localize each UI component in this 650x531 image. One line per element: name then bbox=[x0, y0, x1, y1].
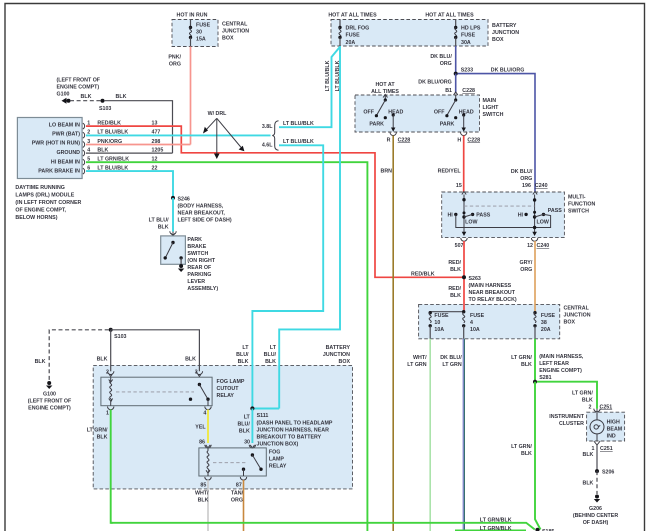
svg-text:LT BLU/BLK: LT BLU/BLK bbox=[325, 60, 331, 91]
svg-text:BLK: BLK bbox=[35, 359, 46, 365]
svg-text:LEFT SIDE OF DASH): LEFT SIDE OF DASH) bbox=[178, 218, 232, 224]
svg-text:DK BLU/: DK BLU/ bbox=[430, 54, 452, 60]
svg-text:10: 10 bbox=[434, 320, 440, 326]
wire WHT/BLK from pin 85 to bottom bbox=[207, 480, 209, 531]
svg-text:PARK BRAKE IN: PARK BRAKE IN bbox=[38, 168, 80, 174]
svg-text:RED/BLK: RED/BLK bbox=[411, 271, 435, 277]
svg-text:LT GRN: LT GRN bbox=[407, 362, 426, 368]
wire BLK dashed S103 to G100 bbox=[49, 330, 108, 381]
svg-text:ORG: ORG bbox=[520, 267, 532, 273]
svg-text:(DASH PANEL TO HEADLAMP: (DASH PANEL TO HEADLAMP bbox=[257, 420, 333, 426]
ground G100 (upper) bbox=[57, 78, 101, 104]
splice S185 bbox=[535, 528, 554, 531]
svg-text:NEAR BREAKOUT: NEAR BREAKOUT bbox=[469, 290, 516, 296]
wire BLK from S103 to DRL ground row bbox=[104, 101, 173, 153]
svg-text:LT BLU/BLK: LT BLU/BLK bbox=[335, 60, 341, 91]
svg-text:BLK: BLK bbox=[583, 452, 594, 458]
wire DK BLU/ORG branch right to multifunction switch bbox=[458, 74, 536, 192]
wire LT GRN/BLK from fuse 38 to S281 bbox=[534, 339, 536, 382]
multi-function switch box outline bbox=[442, 192, 565, 238]
wire WHT/LT GRN from fuse 10 to bottom bbox=[429, 339, 431, 531]
svg-text:BLK: BLK bbox=[185, 357, 196, 363]
pin 2 bbox=[106, 370, 114, 377]
svg-text:BLK: BLK bbox=[81, 94, 92, 100]
svg-text:YEL: YEL bbox=[195, 425, 206, 431]
svg-text:S103: S103 bbox=[114, 334, 126, 340]
central junction box (fuse 30) outline bbox=[172, 20, 218, 47]
svg-text:BLK: BLK bbox=[116, 94, 127, 100]
pin 3 bbox=[83, 139, 91, 148]
svg-text:4.6L: 4.6L bbox=[262, 142, 273, 148]
svg-text:LEVER: LEVER bbox=[187, 279, 205, 285]
svg-text:FUNCTION: FUNCTION bbox=[568, 202, 596, 208]
high beam indicator lamp bbox=[590, 412, 604, 441]
svg-text:4: 4 bbox=[203, 411, 206, 417]
wire LT BLU/BLK from S111 to fog lamp relay pin 30 bbox=[251, 409, 253, 444]
svg-text:DK BLU/: DK BLU/ bbox=[511, 169, 533, 175]
svg-text:BLK: BLK bbox=[521, 362, 532, 368]
svg-text:LT GRN: LT GRN bbox=[442, 362, 461, 368]
svg-text:S233: S233 bbox=[461, 68, 473, 74]
svg-text:S281: S281 bbox=[539, 375, 551, 381]
svg-text:ENGINE COMPT): ENGINE COMPT) bbox=[28, 405, 71, 411]
svg-text:BLK: BLK bbox=[239, 429, 250, 435]
svg-text:30: 30 bbox=[196, 30, 202, 36]
svg-text:20A: 20A bbox=[541, 327, 551, 333]
pin 15 bbox=[456, 183, 466, 195]
svg-text:(MAIN HARNESS: (MAIN HARNESS bbox=[469, 283, 512, 289]
svg-text:2: 2 bbox=[589, 404, 592, 410]
svg-text:BLK: BLK bbox=[582, 397, 593, 403]
svg-text:(LEFT FRONT OF: (LEFT FRONT OF bbox=[28, 398, 72, 404]
label FOG LAMP CUTOUT RELAY bbox=[217, 379, 245, 399]
wire LT BLU/BLK 22 row 6 bbox=[86, 165, 173, 198]
pin R C228 bbox=[387, 132, 411, 143]
label DK BLU/LT GRN bbox=[440, 355, 462, 368]
svg-text:HEAD: HEAD bbox=[388, 110, 403, 116]
wire LT GRN/BLK main down from S281 bbox=[535, 382, 541, 530]
wire BLK 1205 row 4 bbox=[86, 147, 173, 153]
svg-text:85: 85 bbox=[200, 482, 206, 488]
label LT GRN/BLK bbox=[511, 355, 532, 368]
label GRY/ORG bbox=[520, 260, 533, 273]
svg-text:S206: S206 bbox=[602, 470, 614, 476]
svg-text:PARK: PARK bbox=[369, 121, 384, 127]
svg-text:DRL FOG: DRL FOG bbox=[346, 26, 370, 32]
svg-text:JUNCTION: JUNCTION bbox=[564, 313, 591, 319]
svg-text:1: 1 bbox=[106, 411, 109, 417]
svg-text:BELOW HORNS): BELOW HORNS) bbox=[15, 215, 57, 221]
junction on rail bbox=[533, 226, 536, 229]
svg-text:30A: 30A bbox=[461, 40, 471, 46]
ground at park brake switch bbox=[178, 264, 184, 272]
wire low beam rail bbox=[456, 214, 551, 227]
svg-text:38: 38 bbox=[541, 320, 547, 326]
pin 5 bbox=[83, 157, 91, 166]
svg-text:REAR OF: REAR OF bbox=[187, 265, 212, 271]
svg-text:BLK: BLK bbox=[521, 451, 532, 457]
svg-text:SWITCH: SWITCH bbox=[483, 112, 504, 118]
wire BRN from R C228 down to page bottom bbox=[392, 136, 394, 531]
fuse 4 10A bbox=[462, 310, 485, 339]
svg-text:HOT AT ALL TIMES: HOT AT ALL TIMES bbox=[328, 13, 377, 19]
pin 3 bbox=[195, 370, 203, 377]
wire LT GRN/BLK 12 row 5 bbox=[86, 157, 367, 531]
svg-text:GRY/: GRY/ bbox=[520, 260, 533, 266]
svg-text:(BEHIND CENTER: (BEHIND CENTER bbox=[573, 513, 618, 519]
svg-text:DK BLU/ORG: DK BLU/ORG bbox=[491, 68, 525, 74]
svg-text:G100: G100 bbox=[43, 391, 56, 397]
svg-text:G206: G206 bbox=[589, 506, 602, 512]
svg-text:DK BLU/: DK BLU/ bbox=[440, 355, 462, 361]
svg-text:BREAKOUT TO BATTERY: BREAKOUT TO BATTERY bbox=[257, 434, 322, 440]
pin 1 bbox=[83, 120, 91, 129]
svg-text:30: 30 bbox=[244, 439, 250, 445]
wire GRY/ORG from pin 12 to fuse 38 bbox=[534, 241, 536, 313]
svg-text:86: 86 bbox=[199, 439, 205, 445]
svg-text:RELAY: RELAY bbox=[269, 464, 287, 470]
svg-text:BLK: BLK bbox=[583, 481, 594, 487]
svg-text:BOX: BOX bbox=[339, 359, 351, 365]
svg-text:OFF: OFF bbox=[434, 110, 445, 116]
svg-text:LT GRN/: LT GRN/ bbox=[511, 444, 532, 450]
svg-text:C228: C228 bbox=[462, 88, 475, 94]
svg-text:PASS: PASS bbox=[548, 208, 562, 214]
svg-text:DK BLU/ORG: DK BLU/ORG bbox=[418, 80, 452, 86]
pin 30 bbox=[244, 439, 256, 448]
svg-text:BLK: BLK bbox=[238, 359, 249, 365]
svg-text:HI: HI bbox=[447, 213, 453, 219]
svg-text:HD LPS: HD LPS bbox=[461, 26, 481, 32]
wire DK BLU/ORG from HD LPS fuse to S233 bbox=[455, 46, 457, 74]
svg-text:LAMPS (DRL) MODULE: LAMPS (DRL) MODULE bbox=[15, 193, 74, 199]
svg-text:FUSE: FUSE bbox=[434, 313, 449, 319]
wire RED/BLK from pin 507 to S263 bbox=[463, 241, 465, 312]
label TAN/ORG bbox=[231, 491, 244, 504]
splice S263 bbox=[462, 275, 517, 303]
svg-text:BLU/: BLU/ bbox=[236, 352, 249, 358]
svg-text:JUNCTION: JUNCTION bbox=[492, 30, 519, 36]
pin 1 C251 bbox=[592, 441, 613, 452]
svg-text:BLK: BLK bbox=[97, 357, 108, 363]
wire LT BLU/BLK 477 row 2 bbox=[86, 130, 271, 136]
fuse HD LPS 30A bbox=[454, 20, 481, 47]
svg-text:S263: S263 bbox=[469, 276, 481, 282]
wire PNK/ORG 298 row 3 bbox=[86, 139, 191, 145]
svg-text:SWITCH: SWITCH bbox=[568, 209, 589, 215]
svg-text:OF DASH): OF DASH) bbox=[583, 520, 609, 526]
svg-text:3.8L: 3.8L bbox=[262, 124, 273, 130]
splice S103 (upper) bbox=[101, 99, 105, 103]
svg-text:HIGH: HIGH bbox=[607, 419, 620, 425]
headlamp switch (right half) bbox=[434, 95, 474, 132]
svg-text:BLK: BLK bbox=[158, 225, 169, 231]
DRL module box bbox=[17, 118, 82, 179]
fog lamp relay bbox=[199, 448, 266, 476]
svg-text:LO BEAM IN: LO BEAM IN bbox=[49, 122, 80, 128]
svg-text:BOX: BOX bbox=[564, 320, 576, 326]
svg-text:LEFT REAR: LEFT REAR bbox=[539, 361, 569, 367]
svg-text:BOX: BOX bbox=[492, 37, 504, 43]
labels LT BLU/BLK above S111 wires bbox=[236, 345, 249, 365]
svg-text:FUSE: FUSE bbox=[470, 313, 485, 319]
W/ DRL arrows bbox=[203, 111, 244, 159]
brace engine split bbox=[272, 121, 278, 150]
svg-text:ORG: ORG bbox=[169, 62, 181, 68]
svg-text:FUSE: FUSE bbox=[541, 313, 556, 319]
headlamp switch (left half) bbox=[363, 95, 403, 132]
svg-text:ASSEMBLY): ASSEMBLY) bbox=[187, 286, 218, 292]
svg-text:C228: C228 bbox=[398, 137, 411, 143]
svg-text:R: R bbox=[387, 137, 391, 143]
wire link fuse10-fuse4 bbox=[430, 312, 464, 313]
svg-text:JUNCTION: JUNCTION bbox=[323, 352, 350, 358]
svg-text:BATTERY: BATTERY bbox=[326, 345, 351, 351]
svg-text:MULTI-: MULTI- bbox=[568, 195, 586, 201]
svg-text:BLK: BLK bbox=[97, 435, 108, 441]
svg-text:12: 12 bbox=[527, 243, 533, 249]
battery junction box (bottom) outline bbox=[93, 365, 352, 489]
label CENTRAL JUNCTION BOX bbox=[564, 306, 591, 326]
pin 4 bbox=[83, 147, 91, 156]
svg-text:RED/: RED/ bbox=[448, 260, 461, 266]
splice S233 bbox=[454, 68, 473, 76]
svg-text:LAMP: LAMP bbox=[269, 457, 284, 463]
park brake switch bbox=[161, 236, 186, 264]
svg-text:BLK: BLK bbox=[450, 267, 461, 273]
svg-text:C228: C228 bbox=[467, 137, 480, 143]
wire LT GRN/BLK from pin 1 to bottom rail bbox=[111, 410, 113, 523]
svg-text:S111: S111 bbox=[257, 413, 269, 419]
svg-text:SWITCH: SWITCH bbox=[187, 251, 208, 257]
label WHT/BLK bbox=[195, 491, 209, 504]
label PNK/ORG bbox=[168, 55, 181, 68]
wire joining S111 bbox=[252, 408, 279, 410]
wire PNK/ORG vertical from fuse 30 to DRL row 3 bbox=[190, 47, 192, 145]
svg-text:LIGHT: LIGHT bbox=[483, 105, 500, 111]
label FOG LAMP RELAY bbox=[269, 450, 287, 470]
svg-text:HEAD: HEAD bbox=[459, 110, 474, 116]
label CENTRAL JUNCTION BOX (top) bbox=[222, 22, 249, 42]
svg-text:HI: HI bbox=[518, 213, 524, 219]
label BATTERY JUNCTION BOX (top) bbox=[492, 23, 519, 43]
svg-text:LT: LT bbox=[270, 345, 277, 351]
svg-text:PWR (BAT): PWR (BAT) bbox=[52, 132, 80, 138]
svg-text:10A: 10A bbox=[470, 327, 480, 333]
fuse 30 15A bbox=[189, 20, 211, 47]
wire LT BLU/BLK 4.6L branch bbox=[252, 139, 323, 408]
wire BLK from S103 to relay pin 2 bbox=[110, 330, 112, 372]
svg-text:NEAR BREAKOUT,: NEAR BREAKOUT, bbox=[178, 211, 226, 217]
fuse 38 20A bbox=[533, 311, 555, 339]
wire LT GRN/BLK bottom rail to S185 bbox=[111, 523, 535, 530]
splice S103 (lower) bbox=[109, 328, 127, 340]
svg-text:PASS: PASS bbox=[476, 213, 490, 219]
svg-text:PARKING: PARKING bbox=[187, 272, 211, 278]
svg-text:DAYTIME RUNNING: DAYTIME RUNNING bbox=[15, 185, 65, 191]
svg-text:15A: 15A bbox=[196, 37, 206, 43]
label WHT/LT GRN bbox=[407, 355, 427, 368]
wire LT BLU/BLK from DRL FOG fuse down bbox=[279, 46, 340, 409]
svg-text:LT GRN/BLK: LT GRN/BLK bbox=[480, 517, 512, 523]
instrument cluster box outline bbox=[587, 412, 625, 441]
pin H C228 bbox=[457, 132, 480, 143]
svg-text:GROUND: GROUND bbox=[56, 150, 80, 156]
svg-text:ORG: ORG bbox=[440, 61, 452, 67]
svg-text:LT GRN/: LT GRN/ bbox=[511, 355, 532, 361]
pin 2 C251 bbox=[589, 404, 613, 412]
svg-text:LT: LT bbox=[244, 415, 251, 421]
svg-text:PNK/: PNK/ bbox=[168, 55, 181, 61]
fuse 10 10A bbox=[429, 311, 449, 339]
svg-text:OF ENGINE COMPT,: OF ENGINE COMPT, bbox=[15, 208, 66, 214]
svg-text:196: 196 bbox=[522, 183, 531, 189]
wire LT GRN/BLK second rail bbox=[455, 530, 526, 531]
label RED/BLK below S263 bbox=[448, 286, 461, 299]
svg-text:FUSE: FUSE bbox=[196, 23, 211, 29]
svg-text:C251: C251 bbox=[600, 404, 613, 410]
svg-text:LT BLU/BLK: LT BLU/BLK bbox=[283, 139, 314, 145]
svg-text:ORG: ORG bbox=[520, 176, 532, 182]
svg-text:CLUSTER: CLUSTER bbox=[559, 421, 584, 427]
svg-text:OFF: OFF bbox=[363, 110, 374, 116]
svg-text:BLU/: BLU/ bbox=[237, 422, 250, 428]
svg-text:(ON RIGHT: (ON RIGHT bbox=[187, 258, 215, 264]
svg-text:G100: G100 bbox=[57, 92, 70, 98]
svg-text:HOT IN RUN: HOT IN RUN bbox=[177, 13, 208, 19]
wire RED/YEL from H C228 to multifunction switch bbox=[463, 136, 465, 193]
svg-text:BRAKE: BRAKE bbox=[187, 244, 206, 250]
svg-text:20A: 20A bbox=[346, 40, 356, 46]
svg-text:87: 87 bbox=[236, 482, 242, 488]
label HIGH BEAM IND bbox=[607, 419, 623, 439]
svg-text:WHT/: WHT/ bbox=[413, 355, 427, 361]
pin 86 bbox=[199, 439, 211, 448]
svg-text:C240: C240 bbox=[537, 243, 550, 249]
svg-text:LT BLU/BLK: LT BLU/BLK bbox=[283, 121, 314, 127]
label DRL module caption bbox=[15, 185, 81, 221]
svg-text:TAN/: TAN/ bbox=[231, 491, 243, 497]
pin 6 bbox=[83, 165, 91, 174]
svg-text:BATTERY: BATTERY bbox=[492, 23, 517, 29]
ground G206 bbox=[573, 495, 618, 527]
wire TAN/ORG from pin 87 to bottom bbox=[243, 480, 245, 531]
svg-text:CENTRAL: CENTRAL bbox=[564, 306, 590, 312]
splice S206 bbox=[595, 469, 614, 476]
svg-text:CENTRAL: CENTRAL bbox=[222, 22, 248, 28]
label LT GRN/BLK bbox=[87, 428, 108, 441]
svg-text:MAIN: MAIN bbox=[483, 98, 497, 104]
svg-text:HOT AT: HOT AT bbox=[375, 82, 395, 88]
svg-text:IND: IND bbox=[607, 433, 616, 439]
svg-text:LT GRN/BLK: LT GRN/BLK bbox=[480, 526, 512, 531]
wire LT BLU/BLK 3.8L branch bbox=[279, 47, 340, 127]
svg-text:BLK: BLK bbox=[450, 293, 461, 299]
label MULTI-FUNCTION SWITCH bbox=[568, 195, 596, 215]
wire BLK dashed to G206 bbox=[596, 471, 598, 494]
dimmer switch left column bbox=[447, 195, 490, 237]
svg-text:10A: 10A bbox=[434, 327, 444, 333]
central junction box (bottom) outline bbox=[419, 304, 560, 338]
svg-text:LT: LT bbox=[242, 345, 249, 351]
svg-text:(LEFT FRONT OF: (LEFT FRONT OF bbox=[57, 78, 101, 84]
mechanical link dashed bbox=[464, 205, 535, 207]
svg-text:FOG LAMP: FOG LAMP bbox=[217, 379, 245, 385]
svg-text:RED/: RED/ bbox=[448, 286, 461, 292]
splice S246 bbox=[171, 196, 232, 224]
label BATTERY JUNCTION BOX bbox=[323, 345, 351, 365]
svg-text:C240: C240 bbox=[535, 183, 548, 189]
svg-text:S103: S103 bbox=[99, 106, 111, 112]
svg-text:FUSE: FUSE bbox=[346, 33, 361, 39]
svg-text:B1: B1 bbox=[445, 88, 452, 94]
svg-text:S246: S246 bbox=[178, 196, 190, 202]
label HOT AT ALL TIMES above left switch bbox=[371, 82, 399, 95]
svg-text:HI BEAM IN: HI BEAM IN bbox=[51, 159, 80, 165]
wire BLK dashed G100 to S103 bbox=[70, 100, 102, 102]
svg-text:LOW: LOW bbox=[537, 219, 549, 225]
pin 4 bbox=[203, 407, 211, 417]
wire LT BLU/BLK to park brake switch bbox=[172, 198, 174, 232]
svg-text:(IN LEFT FRONT CORNER: (IN LEFT FRONT CORNER bbox=[15, 200, 81, 206]
svg-text:PWR (HOT IN RUN): PWR (HOT IN RUN) bbox=[32, 141, 80, 147]
svg-text:ENGINE COMPT): ENGINE COMPT) bbox=[539, 368, 582, 374]
svg-text:TO RELAY BLOCK): TO RELAY BLOCK) bbox=[469, 297, 517, 303]
svg-text:PARK: PARK bbox=[440, 121, 455, 127]
svg-text:CUTOUT: CUTOUT bbox=[217, 386, 240, 392]
svg-text:FUSE: FUSE bbox=[461, 33, 476, 39]
svg-text:WHT/: WHT/ bbox=[195, 491, 209, 497]
pin 196 C240 bbox=[522, 183, 548, 195]
splice S281 bbox=[533, 354, 584, 384]
fog lamp cutout relay bbox=[101, 377, 212, 406]
svg-text:BLU/: BLU/ bbox=[264, 352, 277, 358]
splice S111 bbox=[250, 406, 333, 447]
dimmer switch right column bbox=[518, 195, 563, 237]
fuse DRL FOG 20A bbox=[338, 20, 369, 47]
main light switch box outline bbox=[355, 95, 480, 132]
pin 1 bbox=[106, 407, 114, 417]
label DK BLU/ORG bbox=[430, 54, 452, 67]
wire BLK from cluster to S206 bbox=[596, 445, 598, 471]
svg-text:INSTRUMENT: INSTRUMENT bbox=[549, 414, 584, 420]
park brake switch connector bbox=[170, 231, 176, 236]
pin 87 bbox=[236, 477, 247, 488]
svg-text:LT GRN/: LT GRN/ bbox=[87, 428, 108, 434]
wire LT GRN/BLK branch to cluster bbox=[537, 382, 597, 409]
svg-text:JUNCTION BOX): JUNCTION BOX) bbox=[257, 441, 299, 447]
label MAIN LIGHT SWITCH bbox=[483, 98, 504, 118]
svg-text:ENGINE COMPT): ENGINE COMPT) bbox=[57, 85, 100, 91]
svg-text:BLK: BLK bbox=[198, 498, 209, 504]
svg-text:H: H bbox=[457, 137, 461, 143]
wire RED/BLK 13 row 1 bbox=[86, 120, 463, 277]
pin B1 C228 bbox=[445, 88, 475, 95]
svg-text:ORG: ORG bbox=[231, 498, 243, 504]
svg-text:LT BLU/: LT BLU/ bbox=[149, 218, 169, 224]
pin 507 bbox=[455, 238, 468, 249]
wire DK BLU/ORG from S233 to B1 bbox=[455, 74, 457, 94]
svg-text:4: 4 bbox=[470, 320, 473, 326]
svg-text:BEAM: BEAM bbox=[607, 426, 623, 432]
label park brake switch bbox=[187, 237, 218, 292]
label LT BLU/BLK bbox=[149, 218, 169, 231]
label INSTRUMENT CLUSTER bbox=[549, 414, 584, 427]
svg-text:RED/YEL: RED/YEL bbox=[438, 169, 462, 175]
svg-text:BRN: BRN bbox=[381, 169, 393, 175]
svg-text:(MAIN HARNESS,: (MAIN HARNESS, bbox=[539, 354, 584, 360]
svg-text:C251: C251 bbox=[600, 446, 613, 452]
